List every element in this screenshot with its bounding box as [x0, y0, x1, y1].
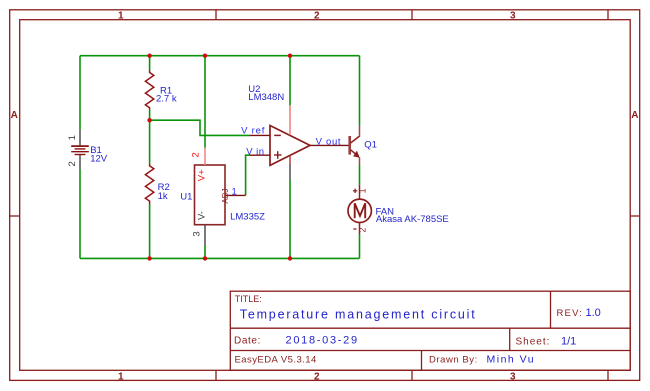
svg-text:Temperature management circuit: Temperature management circuit	[240, 308, 477, 322]
wire V ref (node A to op-amp inverting input)	[150, 120, 250, 135]
svg-text:V-: V-	[197, 211, 208, 220]
svg-text:REV:: REV:	[557, 308, 584, 319]
junction top rail / U1 pin 2	[203, 54, 207, 58]
svg-text:Date:: Date:	[234, 336, 261, 347]
svg-text:3: 3	[510, 372, 516, 383]
svg-text:3: 3	[510, 11, 516, 22]
svg-text:1: 1	[118, 11, 124, 22]
wire V in (U1 pin 1 to op-amp non-inverting input)	[246, 155, 250, 195]
svg-text:1/1: 1/1	[561, 335, 576, 347]
wire U2 V- supply pin to bottom rail	[289, 180, 291, 258]
junction node A (R1/R2/V ref)	[147, 118, 151, 122]
svg-text:A: A	[631, 110, 638, 121]
junction top rail / R1	[147, 54, 151, 58]
svg-text:LM348N: LM348N	[248, 92, 284, 103]
svg-text:LM335Z: LM335Z	[230, 211, 265, 222]
svg-text:2: 2	[67, 161, 78, 166]
svg-text:Minh Vu: Minh Vu	[487, 354, 536, 366]
svg-text:12V: 12V	[90, 154, 108, 165]
svg-text:2: 2	[357, 227, 367, 232]
wire left rail lower (battery pin 2 to bottom rail)	[79, 170, 81, 259]
transistor Q1	[350, 126, 360, 165]
svg-text:V out: V out	[316, 137, 342, 148]
svg-text:V in: V in	[246, 146, 264, 157]
wire node A to R2	[149, 120, 151, 164]
junction bottom rail / R2	[147, 256, 151, 260]
motor FAN	[348, 185, 371, 234]
svg-text:V ref: V ref	[241, 125, 265, 136]
svg-text:V+: V+	[197, 169, 208, 181]
svg-text:1: 1	[67, 135, 78, 140]
wire top rail to U1 pin 2	[204, 56, 206, 148]
svg-text:1: 1	[232, 186, 237, 197]
svg-text:Drawn By:: Drawn By:	[429, 355, 478, 366]
wire U1 pin 3 to bottom rail	[204, 245, 206, 258]
svg-text:2: 2	[314, 11, 320, 22]
junction bottom rail / U1 pin 3	[203, 256, 207, 260]
title block	[230, 291, 630, 370]
wire R2 to bottom rail	[149, 204, 151, 258]
wire left rail upper (top rail to battery pin 1)	[79, 56, 81, 130]
junction top rail / U2 V+	[288, 54, 292, 58]
svg-text:EasyEDA V5.3.14: EasyEDA V5.3.14	[235, 355, 317, 366]
wire top rail corner to Q1 collector	[359, 56, 361, 126]
svg-text:1k: 1k	[158, 191, 168, 202]
svg-text:2018-03-29: 2018-03-29	[286, 335, 359, 347]
svg-text:3: 3	[191, 231, 202, 236]
svg-text:1.0: 1.0	[586, 307, 601, 319]
sensor U1 LM335Z body	[195, 148, 246, 245]
wire Q1 emitter to FAN pin 1	[359, 165, 361, 185]
wire 12V top rail	[80, 55, 360, 57]
svg-text:2.7 k: 2.7 k	[156, 93, 177, 104]
svg-text:U1: U1	[180, 192, 192, 203]
svg-text:1: 1	[118, 372, 124, 383]
battery B1	[71, 129, 89, 169]
resistor R2	[145, 164, 153, 204]
svg-text:2: 2	[314, 372, 320, 383]
svg-text:TITLE:: TITLE:	[235, 294, 262, 304]
wire FAN pin 2 to bottom rail	[359, 234, 361, 258]
junction bottom rail / U2 V-	[288, 256, 292, 260]
wire top rail to U2 V+ supply pin	[289, 56, 291, 106]
svg-text:Akasa AK-785SE: Akasa AK-785SE	[376, 214, 449, 225]
resistor R1	[145, 71, 153, 110]
wire bottom GND rail	[80, 257, 360, 259]
svg-text:2: 2	[190, 152, 201, 157]
op-amp U2 LM348N	[250, 105, 350, 180]
svg-text:1: 1	[357, 188, 367, 193]
svg-text:Sheet:: Sheet:	[516, 336, 551, 347]
wire top rail to R1	[149, 56, 151, 71]
svg-text:ADJ: ADJ	[221, 188, 230, 203]
svg-text:Q1: Q1	[364, 140, 377, 151]
wire R1 to node A junction	[149, 110, 151, 121]
svg-text:A: A	[11, 110, 18, 121]
